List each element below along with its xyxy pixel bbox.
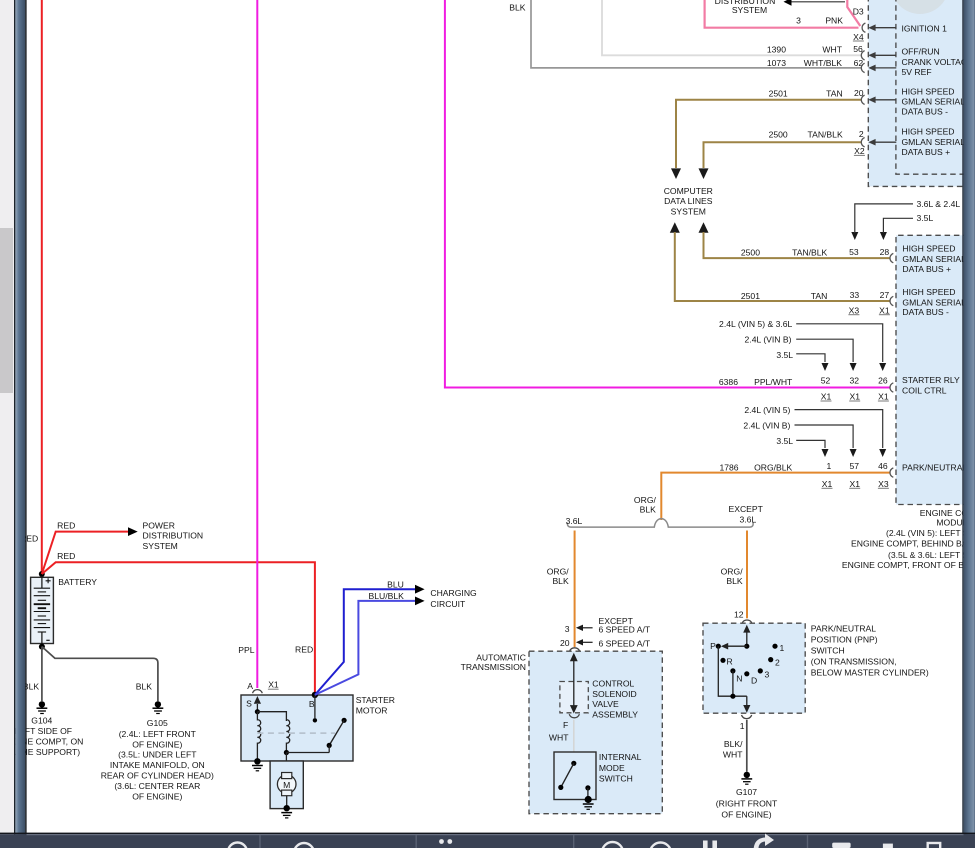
svg-text:OF ENGINE): OF ENGINE) [132, 791, 182, 801]
wire BLK battery to G104 [41, 647, 43, 702]
wire RED branch to starter motor B [42, 562, 315, 692]
bracket pin 26 [890, 383, 893, 392]
automatic transmission box [529, 651, 662, 814]
svg-text:3.5L: 3.5L [776, 436, 793, 446]
svg-text:INTERNAL: INTERNAL [599, 752, 642, 762]
svg-text:A: A [247, 681, 253, 691]
svg-text:EXCEPT: EXCEPT [729, 504, 764, 514]
svg-text:BATTERY: BATTERY [58, 577, 97, 587]
left window slate bar [14, 0, 15, 848]
contact D [744, 671, 749, 676]
wire TAN 2501 upper [676, 100, 862, 168]
svg-text:DISTRIBUTION: DISTRIBUTION [143, 531, 204, 541]
svg-text:TRANSMISSION: TRANSMISSION [461, 662, 526, 672]
svg-text:SYSTEM: SYSTEM [143, 541, 178, 551]
svg-text:SYSTEM: SYSTEM [671, 207, 706, 217]
bracket at PNP connector [742, 620, 752, 624]
coil L1 (pull-in winding) [257, 712, 260, 761]
bottom toolbar [0, 833, 975, 848]
wire WHT/BLK 1073 [531, 0, 862, 68]
svg-text:F: F [563, 720, 568, 730]
svg-text:ASSEMBLY: ASSEMBLY [592, 710, 638, 720]
pin arrow 56 [868, 52, 875, 59]
node coil2 bottom junction [284, 750, 289, 755]
svg-text:MOTOR: MOTOR [356, 705, 388, 715]
svg-text:INTAKE MANIFOLD, ON: INTAKE MANIFOLD, ON [110, 760, 205, 770]
svg-text:2500: 2500 [741, 247, 760, 257]
svg-text:TAN: TAN [811, 291, 828, 301]
bracket F connector [569, 714, 579, 718]
svg-text:BLK: BLK [509, 2, 526, 12]
svg-text:HIGH SPEED: HIGH SPEED [902, 127, 955, 137]
svg-text:TAN/BLK: TAN/BLK [808, 130, 843, 140]
svg-text:DATA BUS -: DATA BUS - [902, 107, 949, 117]
arrow BLU/BLK [415, 597, 425, 606]
wire WHT 1390 [602, 0, 862, 55]
svg-text:X4: X4 [853, 32, 864, 42]
svg-text:AUTOMATIC: AUTOMATIC [476, 652, 526, 662]
wire BLK/WHT to G107 [746, 720, 748, 772]
node battery negative junction [39, 644, 45, 650]
svg-text:X1: X1 [268, 680, 279, 690]
bracket pin 46 [890, 468, 893, 477]
wire coil2 junction to motor [285, 753, 287, 773]
wire TAN/BLK 2500 lower [704, 232, 891, 258]
svg-text:PPL: PPL [238, 645, 254, 655]
ground at starter motor [281, 805, 292, 818]
svg-text:TAN/BLK: TAN/BLK [792, 247, 827, 257]
svg-text:TAN: TAN [826, 89, 843, 99]
svg-text:OF ENGINE): OF ENGINE) [132, 739, 182, 749]
control solenoid valve assembly box [560, 682, 588, 713]
svg-text:27: 27 [880, 290, 890, 300]
svg-text:ENGINE COMPT, BEHIND BATTERY): ENGINE COMPT, BEHIND BATTERY) [851, 539, 975, 549]
svg-text:D3: D3 [853, 6, 864, 16]
svg-text:20: 20 [560, 638, 570, 648]
svg-text:CONTROL: CONTROL [592, 679, 634, 689]
svg-text:2: 2 [859, 129, 864, 139]
svg-text:6386: 6386 [719, 377, 738, 387]
wire B contact stub [314, 695, 316, 718]
bracket below PNP [742, 715, 752, 719]
arrow down to computer data lines [699, 168, 709, 179]
svg-text:(ON TRANSMISSION,: (ON TRANSMISSION, [811, 657, 897, 667]
arrow down to computer data lines [671, 168, 681, 179]
svg-text:GMLAN SERIAL: GMLAN SERIAL [902, 137, 966, 147]
svg-text:X1: X1 [879, 305, 890, 315]
solenoid switch contact and blade [342, 718, 347, 723]
ground G107 [741, 772, 752, 785]
svg-text:SYSTEM: SYSTEM [732, 5, 767, 15]
svg-text:26: 26 [878, 375, 888, 385]
svg-text:3.6L: 3.6L [740, 514, 757, 524]
svg-text:57: 57 [849, 461, 859, 471]
contact 3 [758, 668, 763, 673]
svg-text:2.4L (VIN 5) & 3.6L: 2.4L (VIN 5) & 3.6L [719, 319, 792, 329]
bracket pin 2 [861, 138, 864, 147]
svg-text:3: 3 [565, 624, 570, 634]
svg-text:X1: X1 [878, 392, 889, 402]
svg-text:D: D [751, 676, 757, 686]
svg-text:HIGH SPEED: HIGH SPEED [902, 287, 955, 297]
svg-text:(3.5L: UNDER LEFT: (3.5L: UNDER LEFT [118, 750, 197, 760]
svg-text:G104: G104 [31, 716, 52, 726]
svg-text:R: R [727, 656, 733, 666]
ECM lower box [896, 235, 975, 504]
arrow to power distribution system [128, 527, 138, 536]
svg-text:ORG/BLK: ORG/BLK [754, 462, 792, 472]
svg-text:X1: X1 [822, 479, 833, 489]
bracket pin 53/28 [890, 253, 893, 262]
bracket at transmission connector [570, 648, 580, 652]
svg-text:REAR OF CYLINDER HEAD): REAR OF CYLINDER HEAD) [101, 771, 214, 781]
svg-text:DATA BUS +: DATA BUS + [902, 147, 951, 157]
svg-text:DATA BUS +: DATA BUS + [902, 264, 951, 274]
svg-text:PARK/NEUTRAL: PARK/NEUTRAL [811, 624, 876, 634]
toolbar separators [259, 835, 260, 848]
svg-text:G105: G105 [147, 718, 168, 728]
svg-text:BLK: BLK [552, 576, 569, 586]
bracket pin 20 [861, 95, 864, 104]
svg-text:STARTER: STARTER [356, 695, 395, 705]
svg-text:3.6L: 3.6L [566, 516, 583, 526]
ground G105 [153, 701, 164, 713]
svg-text:2.4L (VIN B): 2.4L (VIN B) [745, 335, 792, 345]
internal mode switch box [554, 752, 596, 800]
wire TAN/BLK 2500 upper [704, 142, 862, 168]
svg-text:WHT: WHT [723, 750, 743, 760]
wire RED branch to power distribution system [42, 532, 129, 574]
svg-text:2501: 2501 [769, 89, 788, 99]
svg-text:MODE: MODE [599, 763, 625, 773]
svg-text:X3: X3 [849, 305, 860, 315]
svg-text:M: M [283, 780, 290, 790]
svg-text:(2.4L (VIN 5): LEFT SIDE OF: (2.4L (VIN 5): LEFT SIDE OF [886, 528, 975, 538]
svg-text:GMLAN SERIAL: GMLAN SERIAL [902, 297, 966, 307]
svg-text:BLK: BLK [726, 576, 743, 586]
mechanical linkage dashed [257, 732, 335, 734]
wire ORG/BLK right branch [746, 531, 748, 619]
callout 3.6L & 2.4L to pin 53 [851, 232, 858, 240]
svg-text:2.4L (VIN B): 2.4L (VIN B) [743, 421, 790, 431]
svg-text:1: 1 [827, 461, 832, 471]
svg-text:PPL/WHT: PPL/WHT [754, 377, 793, 387]
svg-text:BELOW MASTER CYLINDER): BELOW MASTER CYLINDER) [811, 668, 929, 678]
svg-text:BLK: BLK [640, 505, 657, 515]
wire PPL vertical from top to starter A [256, 0, 258, 688]
svg-text:ORG/: ORG/ [721, 566, 744, 576]
svg-text:BLK: BLK [136, 682, 153, 692]
svg-text:(RIGHT FRONT: (RIGHT FRONT [716, 799, 778, 809]
wire PPL/WHT 6386 [445, 0, 890, 388]
svg-text:RED: RED [295, 644, 313, 654]
svg-text:X1: X1 [821, 392, 832, 402]
svg-text:OF ENGINE): OF ENGINE) [721, 809, 771, 819]
svg-text:POWER: POWER [143, 520, 175, 530]
ground at IMS [583, 796, 594, 809]
svg-text:DATA BUS -: DATA BUS - [902, 307, 949, 317]
wire RED vertical from top to battery [41, 0, 43, 573]
svg-text:PNK: PNK [825, 16, 843, 26]
svg-text:6 SPEED A/T: 6 SPEED A/T [599, 638, 651, 648]
svg-text:IGNITION 1: IGNITION 1 [902, 23, 948, 33]
svg-text:1786: 1786 [719, 462, 738, 472]
bracket pin 62 [861, 63, 864, 72]
node PNP common [744, 644, 749, 649]
svg-text:1390: 1390 [767, 45, 786, 55]
svg-text:12: 12 [734, 610, 744, 620]
park/neutral position switch box [703, 623, 805, 713]
svg-text:X1: X1 [849, 479, 860, 489]
svg-text:RED: RED [57, 520, 75, 530]
connector bracket at starter A [253, 690, 263, 694]
svg-text:HIGH SPEED: HIGH SPEED [902, 244, 955, 254]
arrow inside distribution box [784, 0, 792, 6]
svg-text:ORG/: ORG/ [634, 495, 657, 505]
svg-text:3: 3 [765, 670, 770, 680]
node B terminal junction [312, 692, 318, 698]
pin arrow up at 12 inside PNP [743, 625, 750, 633]
svg-text:VALVE: VALVE [592, 699, 619, 709]
svg-text:(3.5L & 3.6L: LEFT SIDE OF: (3.5L & 3.6L: LEFT SIDE OF [888, 550, 975, 560]
node S coil junction [255, 709, 260, 714]
bracket pin 33/27 [890, 296, 893, 305]
contact N [730, 668, 735, 673]
IMS switch [571, 761, 576, 766]
svg-text:3.5L: 3.5L [917, 213, 934, 223]
starter motor sub-box [270, 761, 303, 809]
svg-text:STARTER RLY: STARTER RLY [902, 375, 960, 385]
svg-text:5V REF: 5V REF [902, 67, 932, 77]
svg-text:CHARGING: CHARGING [430, 588, 477, 598]
svg-text:X1: X1 [849, 392, 860, 402]
wire ORG/BLK 1786 [661, 473, 890, 520]
contact P [716, 644, 721, 649]
svg-text:COMPUTER: COMPUTER [664, 186, 713, 196]
ECM upper box (engine control module, top right) [868, 0, 975, 186]
svg-text:BLU/BLK: BLU/BLK [369, 591, 405, 601]
svg-text:1: 1 [780, 643, 785, 653]
wire BLK battery to G105 [42, 647, 158, 702]
svg-text:B: B [309, 699, 315, 709]
svg-text:OFF/RUN: OFF/RUN [902, 47, 940, 57]
contact R [720, 658, 725, 663]
svg-text:46: 46 [878, 461, 888, 471]
PNP wiper arrow to P [728, 645, 747, 647]
svg-text:2500: 2500 [769, 130, 788, 140]
wire coil2 junction to switch [286, 752, 329, 754]
svg-text:2.4L (VIN 5): 2.4L (VIN 5) [744, 405, 790, 415]
svg-text:CIRCUIT: CIRCUIT [430, 599, 466, 609]
pin arrow 62 [868, 65, 875, 72]
svg-text:6 SPEED A/T: 6 SPEED A/T [599, 625, 651, 635]
svg-text:1073: 1073 [767, 58, 786, 68]
svg-text:GMLAN SERIAL: GMLAN SERIAL [902, 254, 966, 264]
svg-text:RED: RED [57, 551, 75, 561]
svg-text:WHT/BLK: WHT/BLK [804, 58, 842, 68]
pin arrow 20 [868, 97, 875, 104]
battery BATTERY [31, 577, 54, 645]
starter motor box [241, 695, 353, 761]
left outer gray strip [0, 0, 14, 848]
svg-text:53: 53 [849, 247, 859, 257]
wire BLU to charging circuit [315, 589, 415, 695]
arrow BLU [415, 585, 425, 594]
svg-text:WHT: WHT [822, 45, 842, 55]
wire WHT to internal mode switch [573, 720, 575, 762]
svg-text:2501: 2501 [741, 291, 760, 301]
svg-text:(2.4L: LEFT FRONT: (2.4L: LEFT FRONT [119, 729, 197, 739]
coil L2 (hold-in winding) [286, 720, 289, 753]
svg-text:BLU: BLU [387, 579, 404, 589]
svg-text:X2: X2 [854, 146, 865, 156]
svg-text:33: 33 [850, 290, 860, 300]
svg-text:N: N [736, 674, 742, 684]
svg-text:SWITCH: SWITCH [599, 773, 633, 783]
svg-text:POSITION (PNP): POSITION (PNP) [811, 635, 878, 645]
svg-text:(3.6L: CENTER REAR: (3.6L: CENTER REAR [114, 781, 200, 791]
svg-text:S: S [246, 699, 252, 709]
contact 2 [768, 657, 773, 662]
svg-text:28: 28 [880, 247, 890, 257]
svg-text:COIL CTRL: COIL CTRL [902, 386, 947, 396]
svg-text:SWITCH: SWITCH [811, 646, 845, 656]
splice bus line [567, 519, 753, 527]
svg-text:ORG/: ORG/ [547, 566, 570, 576]
svg-text:3.5L: 3.5L [776, 350, 793, 360]
wire TAN 2501 lower [675, 232, 890, 301]
contact 1 [772, 644, 777, 649]
callout 3.5L to pin 28 [880, 232, 887, 240]
bracket pin 56 [861, 51, 864, 60]
svg-text:GMLAN SERIAL: GMLAN SERIAL [902, 97, 966, 107]
svg-text:3.6L & 2.4L: 3.6L & 2.4L [917, 199, 961, 209]
wire ORG/BLK left branch [574, 531, 576, 648]
svg-text:G107: G107 [736, 787, 757, 797]
wire BLU/BLK to charging circuit [315, 601, 415, 695]
svg-text:52: 52 [821, 375, 831, 385]
ground G104 [37, 701, 48, 713]
wire S junction to coil2 top [257, 712, 286, 721]
svg-text:1: 1 [740, 721, 745, 731]
pin arrow IGNITION 1 [868, 24, 875, 31]
pin arrow down at output [746, 696, 748, 705]
svg-text:DATA LINES: DATA LINES [664, 196, 713, 206]
svg-text:3: 3 [796, 16, 801, 26]
pin arrow up at A inside starter [254, 696, 261, 704]
ground at starter coil [252, 758, 263, 771]
connector bracket pin ignition [862, 23, 865, 32]
left scrollbar thumb [0, 228, 13, 393]
svg-text:P: P [710, 641, 716, 651]
arrow up from computer data lines (left) [670, 222, 680, 233]
arrow up from computer data lines (right) [699, 222, 709, 233]
motor M [277, 773, 296, 796]
svg-text:WHT: WHT [549, 733, 569, 743]
double arrow through control solenoid valve assembly [570, 653, 578, 661]
right window slate bar [0, 0, 1, 1]
node battery positive junction [39, 571, 45, 577]
svg-text:BLK/: BLK/ [724, 739, 743, 749]
toolbar icons (clipped at bottom) [228, 842, 940, 848]
svg-text:32: 32 [849, 375, 859, 385]
watermark circle [891, 0, 949, 14]
wire P to output [718, 646, 747, 696]
svg-text:HIGH SPEED: HIGH SPEED [902, 87, 955, 97]
power distribution system box (pink) [705, 0, 861, 28]
svg-text:SOLENOID: SOLENOID [592, 689, 636, 699]
svg-text:2: 2 [775, 658, 780, 668]
svg-text:X3: X3 [878, 479, 889, 489]
svg-text:ENGINE COMPT, FRONT OF BATTERY: ENGINE COMPT, FRONT OF BATTERY) [842, 560, 975, 570]
wire motor to ground [286, 796, 288, 806]
pin arrow 2 [868, 139, 875, 146]
wire N to output junction [732, 671, 734, 696]
